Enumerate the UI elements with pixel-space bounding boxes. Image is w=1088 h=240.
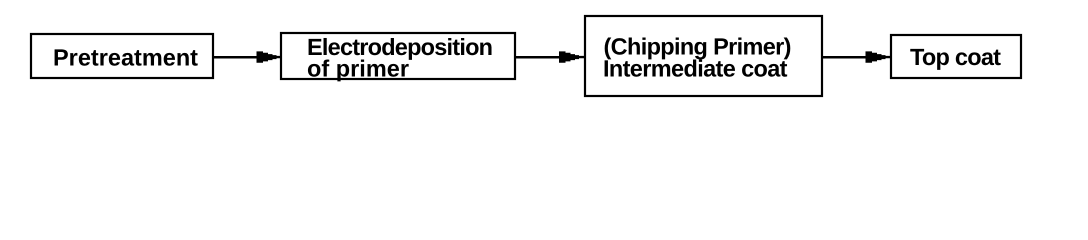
arrow 3 (Intermediate coat to Top coat) [822, 51, 891, 62]
svg-text:Intermediate coat: Intermediate coat [603, 56, 788, 82]
box Electrodeposition of primer [281, 33, 515, 82]
arrow 2 (Electrodeposition to Intermediate coat) [515, 51, 585, 62]
box Pretreatment [31, 34, 213, 78]
svg-text:Top coat: Top coat [910, 44, 1001, 70]
svg-text:Pretreatment: Pretreatment [53, 45, 198, 71]
box (Chipping Primer) Intermediate coat [585, 16, 822, 96]
box Top coat [891, 35, 1021, 78]
svg-text:of primer: of primer [307, 56, 409, 82]
arrow 1 (Pretreatment to Electrodeposition) [213, 51, 282, 62]
